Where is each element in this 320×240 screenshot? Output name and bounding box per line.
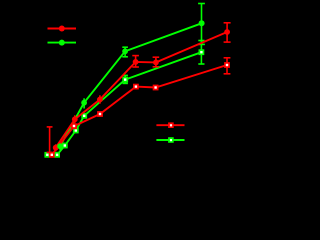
marker RS2 (71, 123, 77, 129)
marker RS3 (97, 111, 103, 117)
marker RS5 (153, 85, 159, 91)
error bar GC3 (122, 47, 128, 57)
marker GS5 (122, 77, 128, 83)
marker GS2 (62, 143, 68, 149)
marker RS4 (133, 84, 139, 90)
marker GC1 (green filled circle) (57, 143, 63, 149)
error bar GC1 (59, 143, 61, 150)
legend 2 red entry (line + open square) (156, 122, 184, 128)
series GS (green open squares) polyline (47, 52, 201, 155)
marker RC3 (97, 97, 103, 103)
legend 2 green entry (line + open square) (156, 137, 184, 143)
marker RC6 (224, 29, 230, 35)
error bar RC5 (153, 57, 160, 67)
marker RC5 (153, 60, 159, 66)
error bar RC1 (55, 144, 57, 151)
marker RS6 (224, 62, 230, 68)
marker RC2 (72, 116, 78, 122)
marker GS3 (73, 128, 79, 134)
error bar RC3 (99, 95, 101, 103)
error bar GS5 (123, 75, 128, 83)
marker GS6 (199, 49, 205, 55)
marker RC4 (133, 59, 139, 65)
marker RS1 (red square white center) (49, 152, 55, 158)
marker GC3 (122, 48, 128, 54)
marker GC2 (81, 100, 87, 106)
marker GS4 (81, 113, 87, 119)
series RC (red filled circles) polyline (56, 32, 227, 148)
marker GS1 (green square white center) (44, 152, 50, 158)
marker RC1 (red filled circle) (53, 145, 59, 151)
error bar RS1 (large) (47, 127, 53, 152)
error bar GC2 (83, 98, 85, 108)
legend 1 green entry (line + circle) (48, 40, 77, 46)
error bar RS6 (224, 58, 231, 74)
legend 1 red entry (line + circle) (48, 26, 77, 32)
error bar RC2 (74, 115, 76, 123)
series RS (red open squares) polyline (52, 65, 227, 155)
error bar RC6 (224, 23, 231, 42)
error bar GS6 (198, 41, 204, 65)
marker GS1b (54, 152, 60, 158)
error bar GC4 (198, 4, 205, 45)
marker GC4 (199, 20, 205, 26)
series GC (green filled circles) polyline (60, 23, 202, 146)
error bar RC4 (132, 56, 139, 67)
